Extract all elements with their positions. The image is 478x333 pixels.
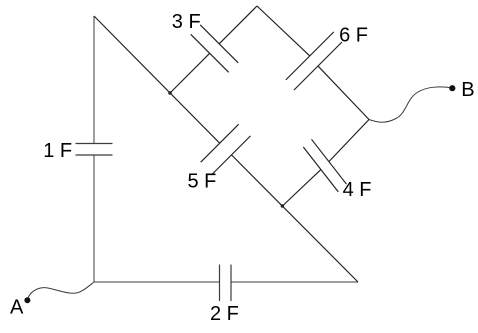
svg-text:5 F: 5 F: [188, 171, 217, 193]
wire: right vertex R down to C4 first plate: [329, 120, 369, 162]
capacitor C5 value 5 F (plates): [201, 124, 251, 174]
capacitor C6 value 6 F (plates): [286, 32, 342, 90]
wire: main diagonal upper segment (apex through node L to C5 first plate): [94, 16, 220, 143]
wire: node L up to C3 first plate: [170, 53, 210, 93]
wire: main diagonal lower segment (C5 second plate through node D to corner): [232, 155, 359, 282]
node D junction dot (bottom bridge node): [281, 204, 285, 208]
wire: left vertical lower segment (C1 bottom plate to corner A-node): [93, 155, 95, 282]
wire: left vertical upper segment (apex to C1 top plate): [93, 16, 95, 144]
svg-text:1 F: 1 F: [43, 140, 72, 162]
wire: bottom horizontal left segment (corner to C2 left plate): [94, 281, 220, 283]
capacitor C4 value 4 F (plates): [303, 139, 346, 192]
wire: terminal B squiggle lead: [369, 87, 452, 122]
svg-text:6 F: 6 F: [339, 24, 368, 46]
svg-text:A: A: [10, 297, 24, 319]
wire: terminal A squiggle lead: [28, 282, 95, 300]
wire: C6 second plate down to right vertex R: [318, 66, 369, 119]
svg-text:3 F: 3 F: [172, 11, 201, 33]
terminal A dot: [24, 297, 30, 303]
wire: C3 second plate up to top vertex T: [219, 6, 257, 44]
node L junction dot (left bridge node): [168, 91, 172, 95]
svg-text:B: B: [461, 79, 474, 101]
capacitor C1 value 1 F (plates): [76, 144, 113, 156]
capacitor C2 value 2 F (plates): [220, 265, 232, 302]
terminal B dot: [449, 85, 455, 91]
svg-text:4 F: 4 F: [343, 179, 372, 201]
wire: bottom horizontal right segment (C2 right plate to bottom-right corner): [231, 281, 358, 283]
wire: C4 second plate down to node D: [282, 169, 321, 206]
svg-text:2 F: 2 F: [210, 303, 239, 325]
wire: top vertex T down to C6 first plate: [257, 6, 310, 56]
capacitor C3 value 3 F (plates): [191, 25, 239, 73]
